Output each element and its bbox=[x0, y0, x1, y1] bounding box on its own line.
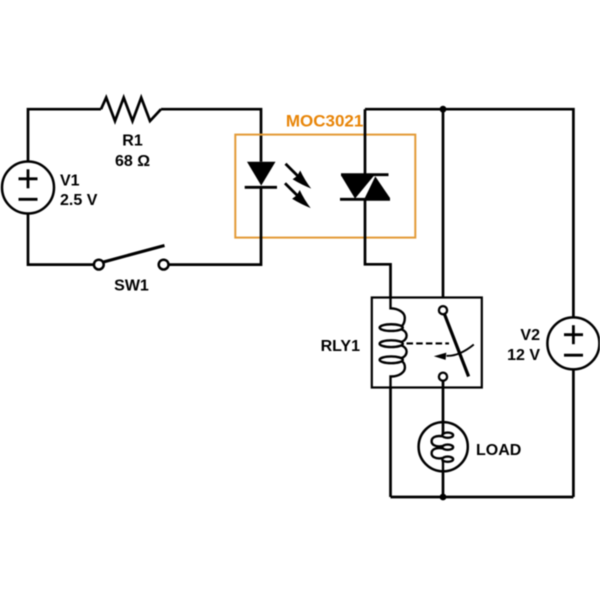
switch SW1 bbox=[94, 246, 169, 270]
wire: relay coil to bottom rail bbox=[389, 388, 392, 498]
relay switch terminals bbox=[439, 306, 447, 314]
bottom rail bbox=[391, 496, 574, 499]
lamp LOAD bbox=[419, 422, 468, 471]
light arrow 2 bbox=[285, 183, 311, 208]
wire: triac top to rail bbox=[364, 109, 367, 175]
wire: LOAD to bottom rail bbox=[442, 471, 445, 497]
junction: LOAD / bottom rail bbox=[440, 494, 447, 501]
svg-text:MOC3021: MOC3021 bbox=[286, 112, 363, 131]
svg-text:V2: V2 bbox=[520, 327, 540, 344]
voltage source V2 bbox=[547, 317, 599, 369]
wire: relay switch to LOAD bbox=[442, 381, 445, 434]
voltage source V1 bbox=[2, 162, 54, 214]
relay coil bbox=[380, 298, 407, 388]
wire: R1 to LED anode bbox=[161, 109, 261, 162]
relay RLY1 box bbox=[372, 298, 482, 388]
relay actuation arrow bbox=[434, 345, 474, 360]
svg-text:2.5 V: 2.5 V bbox=[60, 192, 98, 209]
svg-text:SW1: SW1 bbox=[114, 278, 149, 295]
wire: V1 plus to R1 bbox=[28, 109, 101, 161]
wire: LED cathode to SW1 right terminal bbox=[164, 187, 261, 264]
svg-text:R1: R1 bbox=[122, 133, 143, 150]
svg-text:V1: V1 bbox=[60, 173, 80, 190]
wire: SW1 left terminal to V1 minus bbox=[28, 214, 94, 265]
svg-text:RLY1: RLY1 bbox=[321, 338, 361, 355]
wire: top rail junction to relay switch bbox=[442, 109, 445, 310]
svg-text:12 V: 12 V bbox=[507, 347, 540, 364]
resistor R1 bbox=[101, 98, 161, 121]
wire: top rail to V2 plus bbox=[365, 109, 573, 317]
junction: top rail / relay switch bbox=[440, 106, 447, 113]
wire: triac bottom to relay coil (jog) bbox=[365, 199, 391, 297]
optocoupler box MOC3021 bbox=[235, 135, 415, 238]
svg-text:LOAD: LOAD bbox=[476, 442, 521, 459]
svg-text:68 Ω: 68 Ω bbox=[115, 153, 150, 170]
light arrow 1 bbox=[286, 164, 312, 189]
relay switch blade bbox=[445, 314, 469, 376]
wire: bottom rail to V2 minus bbox=[572, 369, 575, 497]
relay actuation dashed link bbox=[407, 342, 450, 344]
triac (opto detector) bbox=[340, 175, 390, 200]
LED (opto emitter) bbox=[245, 162, 277, 188]
